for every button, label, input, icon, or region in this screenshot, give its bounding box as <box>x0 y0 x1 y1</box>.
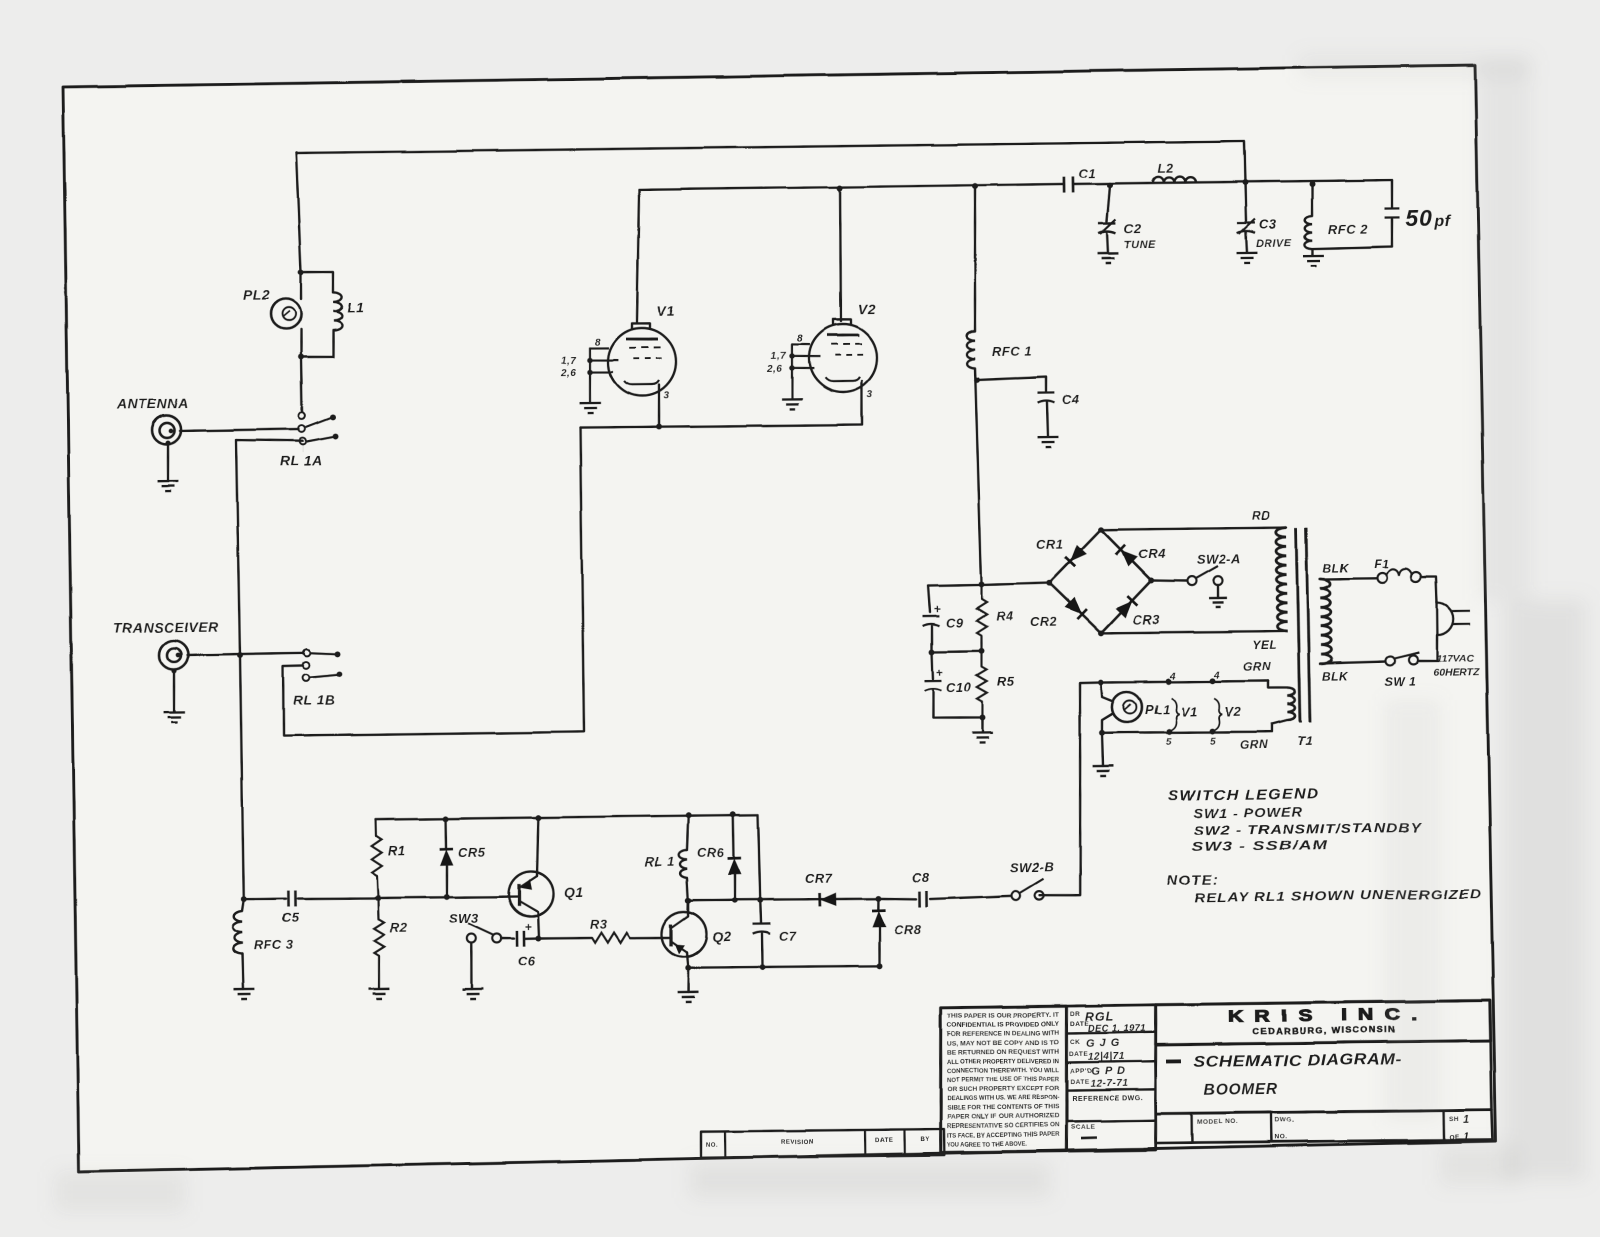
svg-text:+: + <box>934 602 942 616</box>
wire C9 bottom <box>930 626 933 652</box>
node C9 bottom <box>929 649 935 655</box>
diode CR1 <box>1070 545 1087 562</box>
wire filter bottom to ground <box>981 718 984 733</box>
svg-text:V1: V1 <box>657 303 675 319</box>
node V1 heater top <box>1166 678 1172 684</box>
wire filter mid rail <box>932 650 981 653</box>
svg-text:DEC 1, 1971: DEC 1, 1971 <box>1088 1023 1146 1035</box>
ground V1 <box>580 403 601 413</box>
title block fine-print box <box>939 1006 1069 1153</box>
diode CR3 <box>1115 601 1132 618</box>
label scale dash <box>1081 1136 1097 1139</box>
node R1 R2 <box>375 895 381 901</box>
svg-text:BLK: BLK <box>1322 670 1349 684</box>
svg-text:PL2: PL2 <box>243 287 270 303</box>
wire V2 pin3 drop <box>861 381 862 424</box>
wire F1 to plug top <box>1421 577 1437 603</box>
wire TRANSCEIVER jack ground stub <box>171 668 176 673</box>
svg-text:CR4: CR4 <box>1138 546 1166 561</box>
wire emitter ground rail <box>688 965 879 968</box>
bridge arm CR4 <box>1101 529 1151 581</box>
node filter top <box>978 581 984 587</box>
winding T1 mains (BLK) <box>1320 579 1332 664</box>
bridge arm CR1 <box>1049 530 1102 583</box>
node C7 bottom <box>759 964 765 970</box>
node bridge right <box>1148 577 1154 583</box>
svg-text:DATE: DATE <box>1070 1079 1089 1086</box>
svg-text:CK: CK <box>1070 1039 1080 1046</box>
wire heater bottom rail <box>1102 731 1272 734</box>
svg-text:DATE: DATE <box>1070 1021 1089 1028</box>
node V2 plate junction <box>837 185 843 191</box>
svg-text:SW3: SW3 <box>449 911 479 926</box>
inductor RFC 1 <box>967 331 976 368</box>
brace V2 heater <box>1214 698 1222 730</box>
wire PL2 top stub <box>299 272 302 299</box>
wire SW1 to BLK bottom <box>1320 662 1385 664</box>
svg-text:C8: C8 <box>912 870 930 885</box>
transistor Q1 <box>508 871 554 917</box>
svg-text:4: 4 <box>1213 670 1220 681</box>
svg-text:SW 1: SW 1 <box>1385 675 1417 689</box>
switch SW1 left contact <box>1385 656 1394 665</box>
tube V1 pin 2,6 lead <box>590 371 613 374</box>
svg-text:12-7-71: 12-7-71 <box>1090 1079 1128 1090</box>
wire ANTENNA jack to ground <box>165 440 170 445</box>
wire C2 drop <box>1107 185 1111 221</box>
svg-text:Q2: Q2 <box>712 929 732 945</box>
svg-text:DR: DR <box>1070 1011 1080 1018</box>
svg-text:5: 5 <box>1210 736 1216 747</box>
svg-text:60HERTZ: 60HERTZ <box>1433 666 1480 679</box>
svg-text:US, MAY NOT BE COPY AND IS TO: US, MAY NOT BE COPY AND IS TO <box>947 1039 1059 1047</box>
tube V1 pin 8 lead <box>590 347 609 350</box>
svg-text:4: 4 <box>1169 671 1176 682</box>
ground R2 <box>368 989 389 999</box>
tube V1 envelope <box>608 328 677 397</box>
capacitor C9 electrolytic <box>922 616 939 626</box>
svg-text:YEL: YEL <box>1252 638 1277 652</box>
node CR5 bottom <box>444 894 450 900</box>
svg-text:R2: R2 <box>390 920 408 935</box>
svg-text:L2: L2 <box>1158 161 1175 176</box>
title block bottom divider b <box>1270 1112 1273 1141</box>
svg-text:DWG.: DWG. <box>1275 1117 1295 1124</box>
svg-text:APP'D: APP'D <box>1070 1068 1092 1075</box>
svg-text:SCALE: SCALE <box>1071 1124 1096 1131</box>
wire Q1 bottom lead <box>538 912 539 939</box>
wire C9 stub top <box>928 585 930 612</box>
svg-text:ANTENNA: ANTENNA <box>116 395 189 412</box>
wire Q1 top lead <box>536 818 539 876</box>
svg-text:NO.: NO. <box>1275 1134 1288 1141</box>
svg-text:CONNECTION THEREWITH. YOU WILL: CONNECTION THEREWITH. YOU WILL <box>947 1067 1059 1075</box>
svg-text:BY: BY <box>920 1137 929 1143</box>
capacitor C4 <box>1037 393 1054 403</box>
ground V2 <box>781 399 802 409</box>
wire top rail corner down to C7 <box>758 815 760 901</box>
wire main B+ rail y~187 <box>635 190 641 323</box>
resistor R3 <box>592 932 630 942</box>
node bridge bottom <box>1098 630 1104 636</box>
switch SW3 arm <box>468 923 494 936</box>
svg-text:PAPER ONLY IF OUR AUTHORIZED: PAPER ONLY IF OUR AUTHORIZED <box>947 1113 1060 1121</box>
node V2 heater top <box>1209 678 1215 684</box>
node PL1 top <box>1098 680 1104 686</box>
svg-text:L1: L1 <box>347 299 365 315</box>
svg-text:SWITCH LEGEND: SWITCH LEGEND <box>1168 787 1320 805</box>
relay RL1B arm upper <box>310 652 336 654</box>
svg-text:50: 50 <box>1406 205 1434 231</box>
svg-text:NOT PERMIT THE USE OF THIS PAP: NOT PERMIT THE USE OF THIS PAPER <box>947 1076 1060 1084</box>
connector ANTENNA jack <box>152 415 181 444</box>
diode CR8 <box>877 898 880 909</box>
switch SW2-B left contact <box>1011 891 1020 900</box>
svg-text:RL 1A: RL 1A <box>280 452 323 469</box>
svg-text:REFERENCE DWG.: REFERENCE DWG. <box>1072 1095 1143 1103</box>
node C2 junction <box>1107 182 1113 188</box>
revision strip <box>701 1129 945 1159</box>
tube V2 plate cap <box>833 319 851 325</box>
svg-text:OF: OF <box>1449 1134 1459 1141</box>
wire C8 to SW2-B <box>930 896 1011 899</box>
node R4 bottom <box>978 648 984 654</box>
capacitor C3 variable <box>1237 223 1255 233</box>
wire C3 drop <box>1245 183 1246 222</box>
wire transceiver bus down to C5 node <box>240 655 244 899</box>
svg-text:GRN: GRN <box>1243 660 1271 674</box>
wire bias top rail <box>376 815 758 820</box>
relay contact RL1A middle <box>299 425 306 432</box>
tube V1 grid dashes <box>630 346 661 348</box>
diode CR5 <box>440 849 454 866</box>
svg-text:117VAC: 117VAC <box>1436 652 1475 665</box>
svg-text:C9: C9 <box>946 615 964 630</box>
revision strip divider date <box>903 1129 906 1155</box>
relay contact RL1B middle <box>303 662 310 669</box>
wire top rail from PL2 to C3 node <box>296 141 1245 195</box>
revision strip divider no <box>724 1131 727 1157</box>
wire Q2 emitter down <box>687 952 688 968</box>
wire heater winding bottom step <box>1272 720 1287 732</box>
svg-text:R3: R3 <box>590 917 608 932</box>
wire V2 plate drop <box>839 188 842 321</box>
relay RL1A arm lower <box>307 436 334 441</box>
node V1 heater bottom <box>1166 729 1172 735</box>
wire Q2 collector up <box>687 900 690 916</box>
wire C2 to ground <box>1106 233 1109 253</box>
svg-text:2,6: 2,6 <box>560 368 577 379</box>
svg-text:BOOMER: BOOMER <box>1204 1081 1278 1099</box>
diode CR2 <box>1065 597 1082 614</box>
wire emitter to R3 <box>538 937 592 940</box>
svg-text:RD: RD <box>1252 509 1271 523</box>
svg-text:+: + <box>936 666 944 680</box>
node V2 heater bottom <box>1209 728 1215 734</box>
node CR6 bottom <box>732 897 738 903</box>
title block row divider 1 <box>1067 1032 1156 1033</box>
node C4 junction <box>974 377 980 383</box>
wire RL1A bottom to transceiver bus <box>302 444 304 452</box>
node transceiver bus junction <box>237 652 243 658</box>
tube V1 plate cap <box>632 323 650 329</box>
svg-text:CEDARBURG, WISCONSIN: CEDARBURG, WISCONSIN <box>1252 1025 1396 1036</box>
diode CR6 <box>732 814 735 857</box>
svg-text:G P D: G P D <box>1091 1066 1126 1078</box>
inductor L2 <box>1153 176 1196 182</box>
resistor R4 <box>980 584 983 599</box>
svg-text:R1: R1 <box>388 843 406 858</box>
bridge arm CR3 <box>1101 580 1152 632</box>
switch SW2-A left contact <box>1187 576 1196 585</box>
wire TRANSCEIVER to RL1B <box>187 653 304 655</box>
ground Q2 <box>678 992 699 1002</box>
lamp PL1 <box>1101 682 1112 701</box>
node C3 junction <box>1242 179 1248 185</box>
svg-text:1: 1 <box>1463 1114 1470 1126</box>
svg-text:REPRESENTATIVE SO CERTIFIES ON: REPRESENTATIVE SO CERTIFIES ON <box>947 1122 1060 1130</box>
wire bridge left feed <box>982 583 1051 585</box>
switch SW3 right contact <box>492 934 501 943</box>
svg-text:RL 1B: RL 1B <box>293 691 336 708</box>
wire CR5 drop <box>444 819 447 848</box>
title block bottom divider a <box>1190 1113 1193 1142</box>
title block bottom strip <box>1155 1109 1493 1144</box>
svg-text:1,7: 1,7 <box>561 356 577 367</box>
svg-text:R4: R4 <box>996 609 1014 624</box>
wire SW2-B riser <box>1037 683 1104 896</box>
capacitor C8 <box>878 898 916 899</box>
switch SW1 right contact <box>1408 655 1417 664</box>
relay RL1B arm lower <box>310 674 338 677</box>
winding T1 primary HV (RD-YEL) <box>1276 528 1288 632</box>
svg-text:RFC 3: RFC 3 <box>254 937 295 953</box>
svg-text:DRIVE: DRIVE <box>1256 238 1292 250</box>
wire RFC2 ground stub <box>1312 249 1315 256</box>
wire BLK top to F1 <box>1320 577 1377 580</box>
svg-text:SW2-A: SW2-A <box>1197 551 1242 567</box>
tube V2 plate <box>827 333 859 337</box>
svg-text:+: + <box>525 920 533 934</box>
title block bottom divider c <box>1442 1111 1445 1140</box>
svg-text:DATE: DATE <box>1069 1051 1088 1058</box>
relay contact RL1B bottom <box>303 674 310 681</box>
tube V1 pin 1,7 lead <box>590 358 619 361</box>
capacitor C6 <box>517 931 524 947</box>
svg-text:GRN: GRN <box>1240 738 1268 752</box>
svg-text:C5: C5 <box>282 910 300 925</box>
wire CR5 to base rail <box>445 865 448 897</box>
connector TRANSCEIVER jack <box>159 640 188 669</box>
svg-text:V2: V2 <box>1225 704 1242 719</box>
wire PL2 bottom stub <box>299 329 302 357</box>
wire RFC2 drop <box>1310 184 1313 216</box>
ground TRANSCEIVER <box>164 712 185 722</box>
wire RL1B common to V1/V2 cathode bus <box>280 428 584 737</box>
ground SW2-A <box>1209 598 1227 607</box>
svg-text:BLK: BLK <box>1323 561 1350 575</box>
svg-text:1,7: 1,7 <box>771 351 787 362</box>
node Q1 collector top <box>535 815 541 821</box>
title block row divider 4 <box>1066 1120 1155 1121</box>
transistor Q2 emitter lead <box>671 941 687 952</box>
ground C2 <box>1098 253 1119 263</box>
svg-text:R5: R5 <box>997 674 1015 689</box>
svg-text:DATE: DATE <box>875 1138 893 1144</box>
capacitor C2 variable <box>1098 223 1116 233</box>
wire Q2 emitter to ground <box>686 968 689 992</box>
wire base rail <box>378 896 519 898</box>
svg-text:C3: C3 <box>1259 217 1277 232</box>
lamp PL2 <box>271 299 301 329</box>
svg-text:CR1: CR1 <box>1036 537 1064 552</box>
wire PL2 vertical from top rail <box>296 153 301 272</box>
svg-text:C6: C6 <box>518 954 536 969</box>
transistor Q2 <box>661 911 707 957</box>
inductor RFC 3 <box>232 911 242 954</box>
node RFC1 top junction <box>972 183 978 189</box>
svg-text:PL1: PL1 <box>1145 702 1171 717</box>
svg-text:TRANSCEIVER: TRANSCEIVER <box>113 619 219 636</box>
wire ANTENNA to RL1A common <box>180 429 299 431</box>
wire PL2 node to RL1A <box>301 357 302 412</box>
switch SW1 arm <box>1394 652 1419 658</box>
svg-text:CR5: CR5 <box>458 845 486 860</box>
capacitor C1 <box>1063 176 1072 192</box>
tube V2 pin 8 lead <box>792 343 810 346</box>
node RL1 top <box>685 812 691 818</box>
svg-text:SW3 - SSB/AM: SW3 - SSB/AM <box>1192 837 1329 854</box>
wire C4 branch <box>977 377 1046 393</box>
inductor L1 <box>333 292 342 330</box>
svg-text:YOU AGREE TO THE ABOVE.: YOU AGREE TO THE ABOVE. <box>947 1141 1027 1149</box>
wire YEL from bridge bottom <box>1101 631 1285 634</box>
inductor RL1 coil <box>687 815 689 850</box>
wire collector rail <box>688 898 878 901</box>
svg-text:MODEL NO.: MODEL NO. <box>1197 1118 1238 1126</box>
title block middle column box <box>1065 1005 1158 1151</box>
transistor Q1 emitter lead <box>519 876 537 888</box>
svg-text:2,6: 2,6 <box>766 364 783 375</box>
svg-text:SH: SH <box>1449 1116 1459 1123</box>
node PL1 bottom <box>1099 730 1105 736</box>
ground PL1 <box>1093 766 1114 776</box>
capacitor 50pf <box>1390 180 1393 207</box>
svg-text:1: 1 <box>1463 1131 1470 1143</box>
svg-text:CONFIDENTIAL IS PROVIDED ONLY: CONFIDENTIAL IS PROVIDED ONLY <box>947 1021 1060 1029</box>
capacitor C5 <box>288 891 295 907</box>
wire L1 branch top <box>301 271 333 292</box>
resistor R1 <box>374 820 377 836</box>
label TITLE dash <box>1166 1059 1181 1063</box>
node Q2 emitter rail <box>685 965 691 971</box>
wire C10 bottom <box>933 690 982 718</box>
svg-text:RGL: RGL <box>1085 1010 1115 1024</box>
switch SW3 left contact <box>467 934 476 943</box>
switch SW2-B arm <box>1020 879 1044 893</box>
wire plug bottom to SW1 <box>1418 635 1438 661</box>
AC plug 117VAC <box>1437 603 1453 635</box>
winding T1 heater <box>1287 688 1295 720</box>
tube V2 envelope <box>809 324 878 393</box>
svg-text:NO.: NO. <box>706 1143 718 1149</box>
node L1 bottom <box>298 354 304 360</box>
title block row divider 2 <box>1066 1061 1155 1062</box>
ground ANTENNA <box>158 481 179 491</box>
svg-text:SCHEMATIC DIAGRAM-: SCHEMATIC DIAGRAM- <box>1194 1051 1402 1071</box>
relay RL1A arm upper <box>306 418 331 428</box>
brace V1 heater <box>1171 698 1179 730</box>
svg-text:C2: C2 <box>1124 221 1142 236</box>
node PL2 top <box>298 269 304 275</box>
wire L1 branch bottom <box>301 330 334 357</box>
node CR6 top <box>730 811 736 817</box>
tube V2 pin bus <box>791 344 792 398</box>
inductor RFC 2 <box>1305 216 1313 249</box>
wire SW3 to C6 <box>501 937 514 940</box>
wire C4 to ground <box>1047 402 1048 437</box>
fuse F1 <box>1377 573 1387 583</box>
svg-text:RFC 1: RFC 1 <box>992 344 1032 360</box>
transformer core <box>1296 528 1300 722</box>
wire RD from bridge top <box>1101 527 1286 530</box>
switch SW2-A arm <box>1196 566 1218 578</box>
resistor R2 <box>377 898 380 919</box>
svg-text:C7: C7 <box>779 929 797 944</box>
svg-text:G J G: G J G <box>1086 1038 1120 1050</box>
ground RFC2 <box>1303 256 1324 266</box>
wire SW2-A to ground <box>1217 585 1220 598</box>
node Q1 emitter <box>535 935 541 941</box>
wire V1 pin3 drop <box>658 385 659 427</box>
switch SW2-B right contact <box>1035 891 1044 900</box>
svg-text:RL 1: RL 1 <box>645 854 675 869</box>
wire PL1 ground drop <box>1102 733 1103 766</box>
svg-text:3: 3 <box>664 391 670 402</box>
wire C10 stub top <box>931 652 934 679</box>
svg-text:Q1: Q1 <box>564 884 584 900</box>
ground SW3 <box>462 989 483 999</box>
svg-text:C10: C10 <box>946 680 972 695</box>
tube V1 cathode <box>624 380 659 384</box>
svg-text:DEALINGS WITH US. WE ARE RESPO: DEALINGS WITH US. WE ARE RESPON- <box>947 1094 1059 1102</box>
relay contact RL1A bottom <box>300 438 307 445</box>
wire heater top rail <box>1101 680 1268 683</box>
node CR5 top <box>443 816 449 822</box>
svg-text:BE RETURNED ON REQUEST WITH: BE RETURNED ON REQUEST WITH <box>947 1048 1060 1056</box>
svg-text:V1: V1 <box>1181 704 1198 719</box>
svg-text:REVISION: REVISION <box>781 1140 814 1146</box>
wire R3 to Q2 base <box>630 936 671 939</box>
svg-text:CR3: CR3 <box>1133 612 1161 627</box>
ground RFC3 <box>233 989 254 999</box>
title block row divider 3 <box>1066 1089 1155 1090</box>
wire RFC1 to C9 node <box>975 368 982 584</box>
svg-text:T1: T1 <box>1297 733 1313 748</box>
svg-text:CR6: CR6 <box>697 845 725 860</box>
svg-text:OR SUCH PROPERTY EXCEPT FOR: OR SUCH PROPERTY EXCEPT FOR <box>947 1085 1060 1093</box>
svg-text:3: 3 <box>867 389 873 400</box>
svg-text:CR2: CR2 <box>1030 614 1058 629</box>
tube V1 plate <box>626 337 658 341</box>
node C7 top <box>757 897 763 903</box>
tube V1 pin bus <box>589 348 590 402</box>
transistor Q2 collector lead <box>671 916 688 928</box>
svg-text:V2: V2 <box>858 301 876 317</box>
svg-text:CR7: CR7 <box>805 871 833 886</box>
node RFC2 top <box>1309 181 1315 187</box>
node CR8 bottom <box>876 963 882 969</box>
